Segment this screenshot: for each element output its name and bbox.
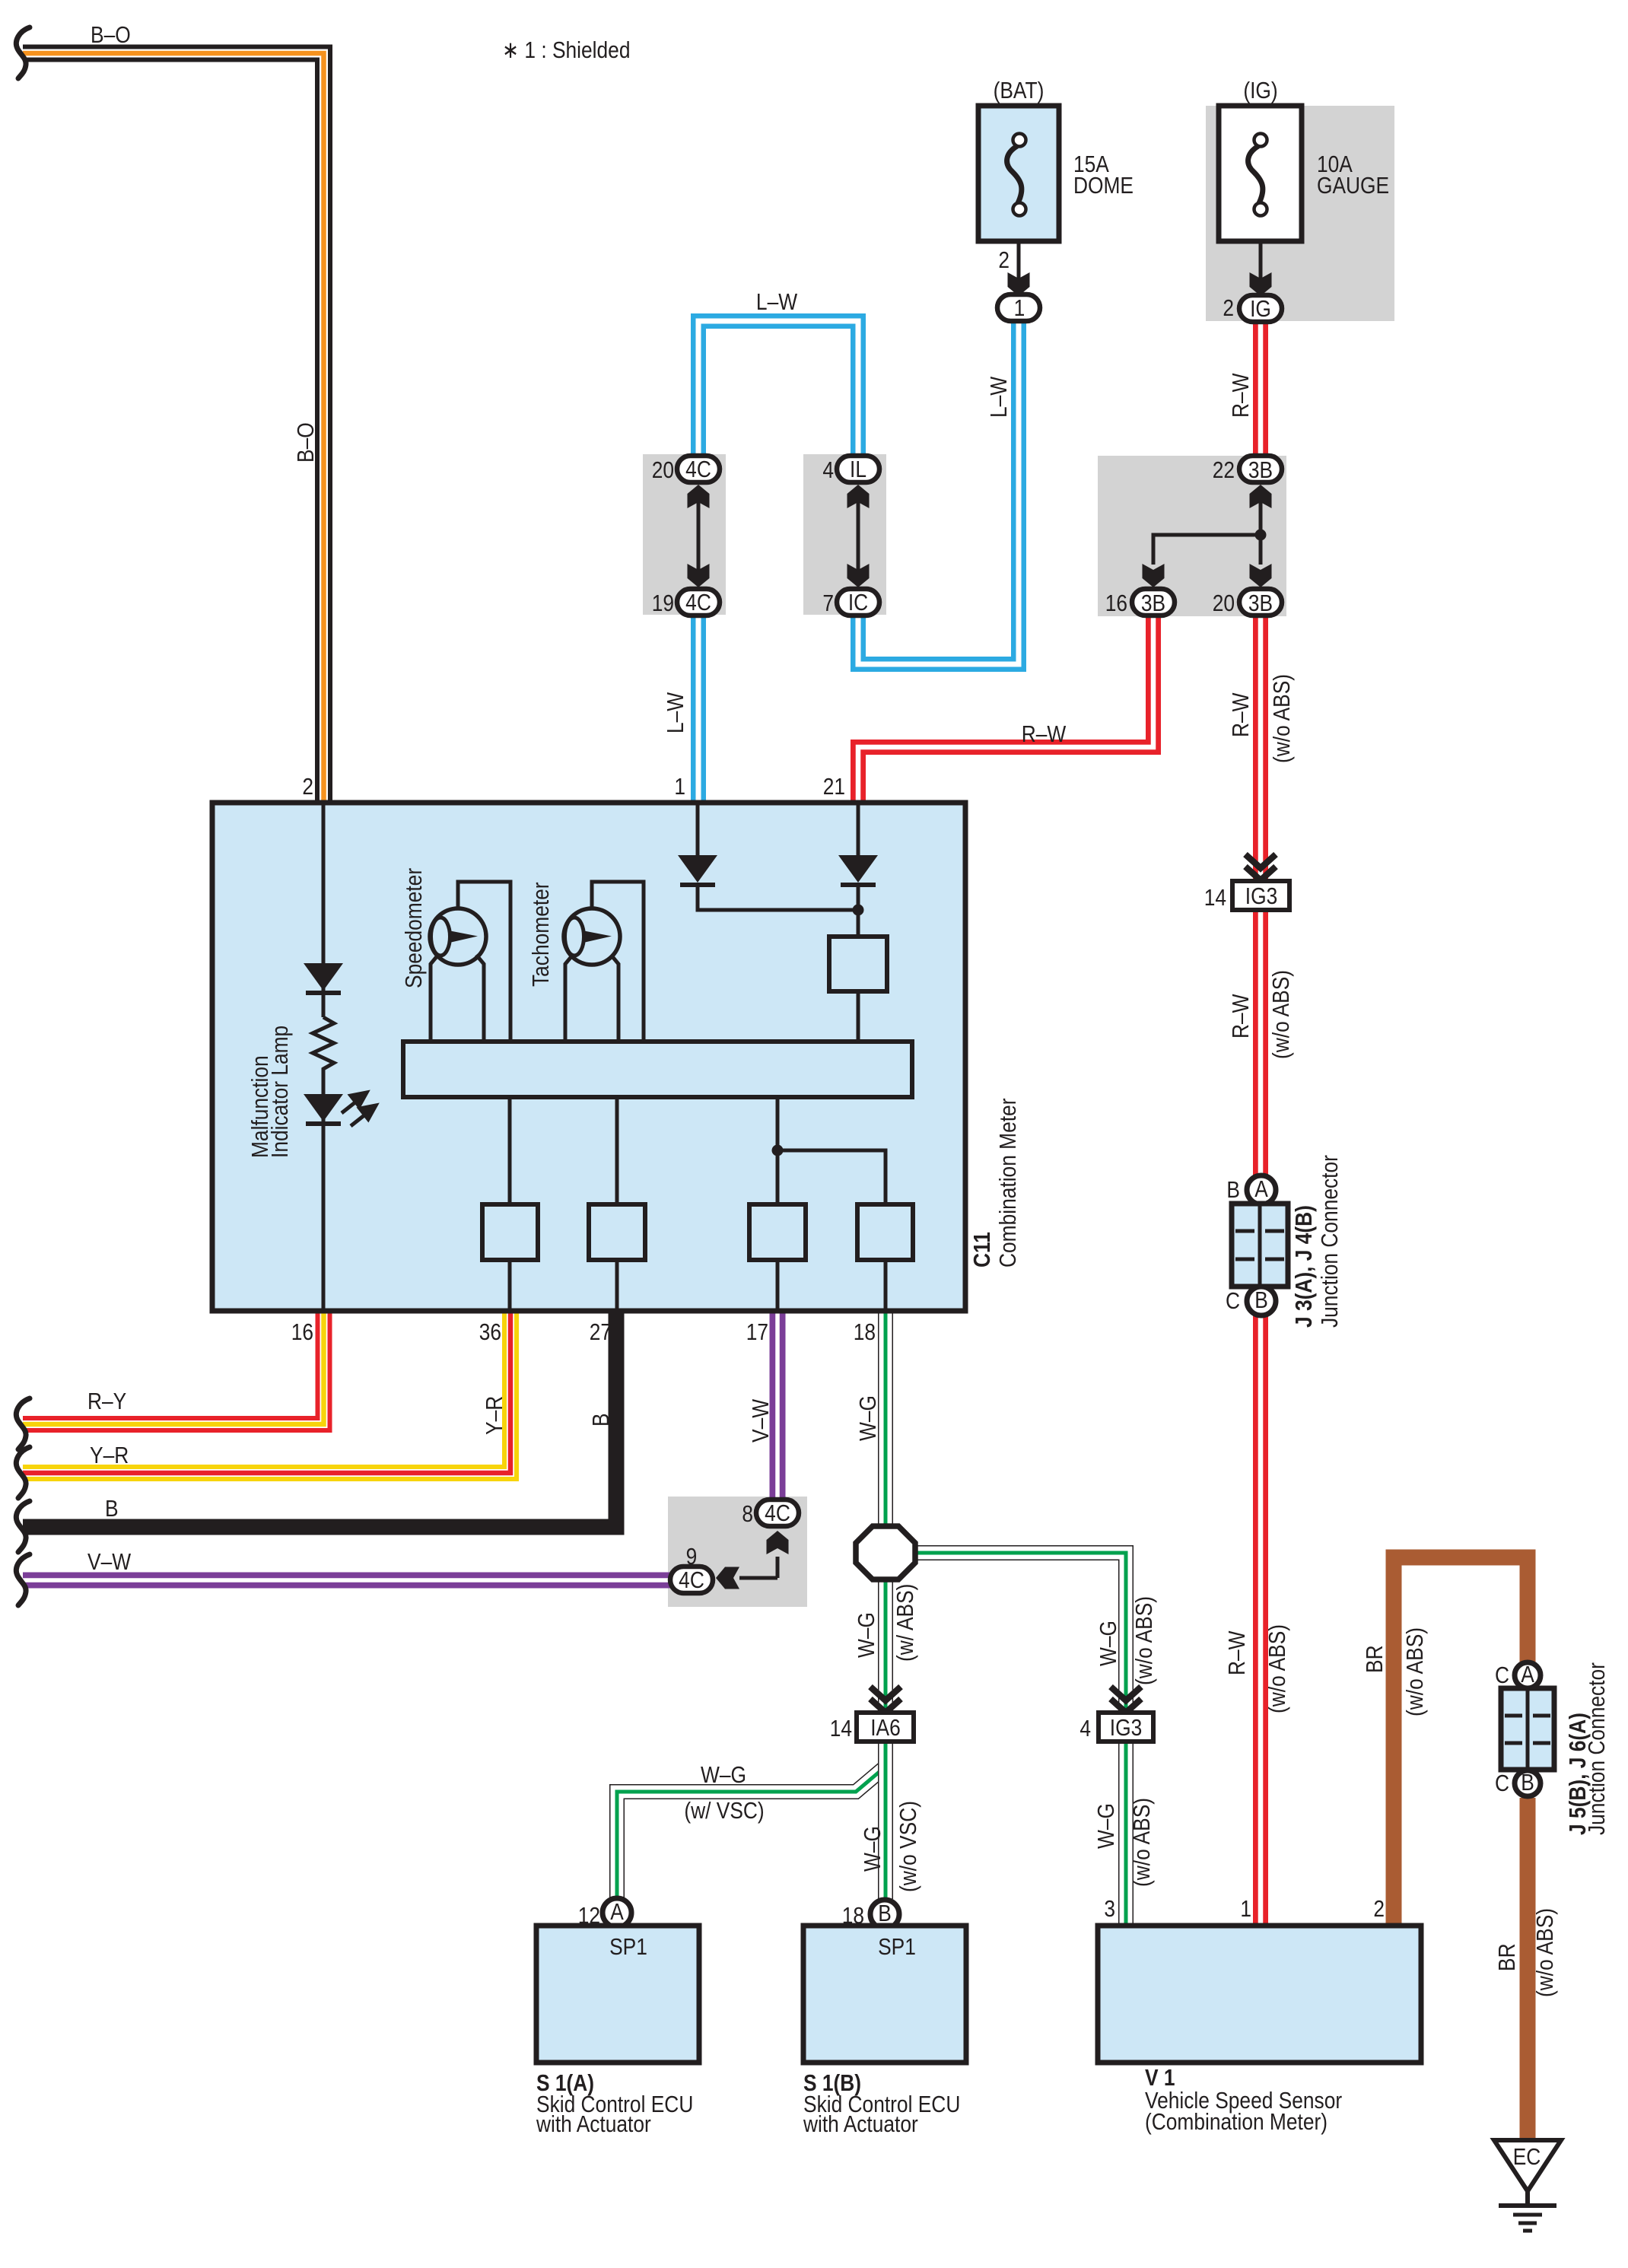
resistor (MIL) <box>313 1017 334 1074</box>
svg-text:18: 18 <box>842 1903 864 1929</box>
wire W-G w/o ABS (IG3 to V1 pin 3) <box>1118 1741 1134 1926</box>
svg-text:14: 14 <box>830 1716 852 1742</box>
wire W-G w/ABS (octagon to IA6) <box>878 1579 893 1713</box>
svg-text:C: C <box>1226 1288 1240 1314</box>
svg-text:C: C <box>1495 1770 1509 1796</box>
connector oval 3B pin 22 <box>1239 456 1282 482</box>
component square output 4 <box>857 1204 913 1260</box>
wire bar to square 3 <box>776 1097 780 1204</box>
svg-text:W–G: W–G <box>1093 1803 1119 1849</box>
wire speedometer legs <box>431 955 438 1042</box>
connector tab IA6 pin 14 <box>857 1713 914 1742</box>
connector 4C 8/9 internal arrows <box>776 1557 780 1578</box>
cut-off curl Y-R wire <box>16 1447 30 1498</box>
svg-text:(w/o ABS): (w/o ABS) <box>1264 1624 1290 1713</box>
connector oval 3B pin 16 <box>1132 589 1175 616</box>
cut-off curl R-Y wire <box>16 1398 30 1449</box>
connector oval 4C pin 9 <box>670 1567 713 1593</box>
svg-text:(w/o ABS): (w/o ABS) <box>1131 1596 1157 1685</box>
junction connector J5(B) J6(A) circle B <box>1515 1770 1541 1796</box>
svg-text:(w/ ABS): (w/ ABS) <box>892 1584 918 1662</box>
component square output 2 <box>589 1204 645 1260</box>
wire branch to square 4 <box>777 1150 886 1204</box>
svg-text:(w/o ABS): (w/o ABS) <box>1129 1798 1155 1887</box>
svg-text:B–O: B–O <box>293 422 319 463</box>
svg-text:BR: BR <box>1494 1943 1520 1971</box>
connector oval 4C pin 8 <box>756 1500 799 1526</box>
svg-text:IG3: IG3 <box>1110 1715 1142 1741</box>
wire BR w/o ABS (junction connector J5 B to EC ground) <box>1520 1798 1536 2141</box>
wire square 4 to pin 18 <box>884 1260 888 1310</box>
diode (pin 21 branch) <box>838 855 878 883</box>
svg-text:L–W: L–W <box>663 692 688 733</box>
svg-text:(w/ VSC): (w/ VSC) <box>684 1798 764 1824</box>
svg-text:C11: C11 <box>969 1232 995 1268</box>
wire Y-R (pin 36) <box>23 1310 510 1473</box>
svg-text:1: 1 <box>1014 295 1025 321</box>
svg-text:B: B <box>105 1496 119 1522</box>
diode (pin 1 branch) <box>678 855 717 883</box>
junction connector J3(A) J4(B) circle B <box>1247 1287 1276 1315</box>
chevron into IA6 (14) <box>870 1687 901 1713</box>
svg-text:(BAT): (BAT) <box>994 78 1045 103</box>
svg-text:1: 1 <box>674 774 685 800</box>
svg-text:A: A <box>1254 1176 1268 1202</box>
S1(B) circle B pin 18 <box>870 1900 899 1929</box>
speedometer gauge <box>430 908 486 965</box>
svg-text:20: 20 <box>1213 590 1235 616</box>
svg-text:SP1: SP1 <box>878 1934 916 1960</box>
wire pin 1 branch <box>696 803 700 855</box>
connector pair 4C 20/19 internal arrow <box>697 491 701 582</box>
svg-text:B: B <box>1521 1770 1534 1796</box>
bus bar <box>403 1042 912 1097</box>
svg-text:7: 7 <box>822 590 834 616</box>
wire square to bus bar <box>857 991 860 1042</box>
svg-text:B: B <box>1254 1287 1268 1313</box>
svg-text:J 3(A), J 4(B): J 3(A), J 4(B) <box>1291 1205 1317 1328</box>
wire MIL branch <box>322 803 326 1017</box>
diode (MIL) <box>304 963 343 991</box>
svg-text:21: 21 <box>823 774 845 800</box>
S1(A) Skid Control ECU box <box>536 1926 699 2063</box>
svg-text:IC: IC <box>848 590 868 616</box>
wire bar to square 1 <box>508 1097 512 1204</box>
wire B (pin 27, ground) <box>23 1310 616 1527</box>
connector tab IG3 pin 4 <box>1099 1713 1153 1742</box>
wire W-G w/VSC (S1(A) pin 12 branch) <box>617 1767 886 1897</box>
svg-text:IG3: IG3 <box>1245 883 1277 909</box>
svg-text:9: 9 <box>686 1544 698 1570</box>
svg-text:Combination Meter: Combination Meter <box>995 1098 1021 1268</box>
svg-text:Y–R: Y–R <box>482 1396 507 1435</box>
svg-text:2: 2 <box>1373 1896 1385 1922</box>
svg-text:20: 20 <box>652 457 674 483</box>
svg-text:R–W: R–W <box>1022 721 1067 747</box>
svg-text:27: 27 <box>590 1319 612 1345</box>
svg-text:8: 8 <box>742 1501 753 1527</box>
wire W-G w/o VSC (IA6 to S1(B) pin 18) <box>878 1741 893 1899</box>
svg-text:W–G: W–G <box>855 1395 881 1441</box>
svg-text:B: B <box>878 1901 892 1926</box>
svg-text:(w/o VSC): (w/o VSC) <box>895 1801 921 1892</box>
junction dot square 3/4 branch <box>772 1145 784 1156</box>
svg-text:3B: 3B <box>1141 590 1165 616</box>
wire W-G (pin 18 to shield octagon) <box>878 1310 893 1526</box>
svg-text:R–W: R–W <box>1224 1630 1250 1675</box>
cut-off curl B wire <box>16 1501 30 1552</box>
connector oval IG <box>1239 295 1282 322</box>
svg-text:3: 3 <box>1104 1896 1115 1922</box>
wire fuse GAUGE to connector IG <box>1259 241 1263 280</box>
wire bar to square 2 <box>615 1097 619 1204</box>
connector oval IL pin 4 <box>837 456 879 482</box>
svg-text:BR: BR <box>1362 1645 1388 1673</box>
V1 Vehicle Speed Sensor box <box>1098 1926 1421 2063</box>
wire pin 21 branch <box>857 803 860 855</box>
cut-off curl B-O wire <box>16 27 30 78</box>
LED (MIL) <box>304 1094 343 1121</box>
svg-text:with Actuator: with Actuator <box>536 2111 651 2137</box>
wire R-Y (pin 16) <box>23 1310 324 1424</box>
wire BR w/o ABS (V1 pin 2 to junction connector J5 A) <box>1394 1557 1528 1926</box>
svg-text:36: 36 <box>479 1319 501 1345</box>
svg-text:16: 16 <box>291 1319 313 1345</box>
svg-text:Indicator Lamp: Indicator Lamp <box>267 1026 293 1158</box>
connector oval IC pin 7 <box>837 589 879 616</box>
svg-text:14: 14 <box>1204 885 1226 911</box>
wire W-G w/o ABS (octagon right branch to IG3) <box>913 1553 1126 1713</box>
tachometer gauge <box>564 908 620 965</box>
wire R-W w/o ABS (IG3 to junction connector J3 A) <box>1253 908 1268 1178</box>
grey panel connector 3B block <box>1098 456 1286 616</box>
wire R-W (GAUGE fuse IG to connector 3B pin 22) <box>1253 320 1268 457</box>
svg-text:L–W: L–W <box>756 289 798 315</box>
junction connector J5(B) J6(A) circle A <box>1515 1662 1541 1688</box>
connector tab IG3 pin 14 <box>1232 881 1289 910</box>
svg-text:(w/o ABS): (w/o ABS) <box>1532 1908 1558 1997</box>
svg-text:∗ 1 : Shielded: ∗ 1 : Shielded <box>502 37 630 63</box>
svg-text:L–W: L–W <box>986 376 1012 418</box>
svg-text:4C: 4C <box>685 590 711 616</box>
grey panel of IG fuse block <box>1206 106 1394 321</box>
svg-text:16: 16 <box>1105 590 1127 616</box>
svg-text:B–O: B–O <box>91 22 131 48</box>
component square output 3 <box>749 1204 806 1260</box>
wire fuse DOME to connector 1 <box>1017 241 1021 280</box>
svg-text:2: 2 <box>998 247 1010 273</box>
svg-text:C: C <box>1495 1662 1509 1688</box>
svg-text:R–W: R–W <box>1228 692 1254 737</box>
svg-text:2: 2 <box>1223 295 1234 321</box>
svg-text:4: 4 <box>1080 1716 1091 1742</box>
svg-text:W–G: W–G <box>1095 1621 1121 1666</box>
wire square 1 to pin 36 <box>508 1260 512 1310</box>
connector oval 1 <box>997 294 1040 321</box>
wire tachometer loop <box>592 882 644 1042</box>
svg-text:IL: IL <box>850 456 866 482</box>
wire square 3 to pin 17 <box>776 1260 780 1310</box>
wire L-W (DOME fuse to connector IC pin 7) <box>858 320 1019 664</box>
svg-text:IA6: IA6 <box>870 1715 901 1741</box>
svg-text:12: 12 <box>578 1903 600 1929</box>
connector oval 4C pin 19 <box>677 589 720 616</box>
junction dot diodes <box>853 905 864 916</box>
svg-text:3B: 3B <box>1248 590 1273 616</box>
svg-text:A: A <box>1521 1662 1534 1687</box>
svg-text:(w/o ABS): (w/o ABS) <box>1402 1627 1428 1716</box>
junction connector J3(A) J4(B) circle A <box>1247 1175 1276 1204</box>
wire L-W (connector 4C pin 19 to meter pin 1) <box>691 618 706 803</box>
grey panel connector 4C 8/9 block <box>668 1497 807 1607</box>
wire R-W (connector 3B pin 16 to meter pin 21) <box>858 618 1153 803</box>
svg-text:4C: 4C <box>679 1567 704 1593</box>
chevron into IG3 (14) <box>1245 854 1276 880</box>
svg-text:W–G: W–G <box>701 1762 746 1788</box>
svg-text:GAUGE: GAUGE <box>1317 173 1389 199</box>
connector 3B internal bus <box>1259 491 1263 535</box>
EC ground <box>1494 2140 1561 2231</box>
component square (regulator) <box>829 937 887 991</box>
wire B-O (battery feed to pin 2) <box>23 53 324 803</box>
svg-text:Junction Connector: Junction Connector <box>1317 1155 1343 1328</box>
svg-text:19: 19 <box>652 590 674 616</box>
svg-text:with Actuator: with Actuator <box>803 2111 918 2137</box>
combination meter C11 box <box>212 803 965 1311</box>
svg-text:R–W: R–W <box>1228 373 1254 418</box>
svg-text:3B: 3B <box>1248 457 1273 483</box>
svg-text:V–W: V–W <box>748 1398 774 1443</box>
wire V-W (connector 4C pin 9 to left edge) <box>23 1573 673 1589</box>
svg-text:R–W: R–W <box>1228 994 1254 1039</box>
svg-text:Junction Connector: Junction Connector <box>1584 1662 1610 1835</box>
svg-text:4C: 4C <box>685 456 711 482</box>
shield octagon <box>856 1526 915 1579</box>
junction connector J5(B) J6(A) cells <box>1501 1688 1554 1770</box>
svg-text:4C: 4C <box>765 1500 790 1526</box>
svg-text:EC: EC <box>1513 2144 1541 2170</box>
S1(A) circle A pin 12 <box>603 1898 631 1927</box>
svg-text:(Combination Meter): (Combination Meter) <box>1145 2109 1328 2135</box>
wire V-W (pin 17 to connector 4C pin 8) <box>770 1310 786 1500</box>
svg-text:4: 4 <box>822 457 834 483</box>
wire R-W w/o ABS (junction connector J3 B to V1 pin 1) <box>1253 1314 1268 1926</box>
svg-text:18: 18 <box>854 1319 876 1345</box>
connector oval 4C pin 20 <box>677 456 720 482</box>
grey panel connector 4C pair <box>643 454 726 615</box>
svg-text:W–G: W–G <box>860 1826 886 1872</box>
wire speedometer loop <box>458 882 510 1042</box>
svg-text:B: B <box>1226 1177 1240 1203</box>
svg-text:(IG): (IG) <box>1243 78 1277 103</box>
svg-text:17: 17 <box>746 1319 768 1345</box>
svg-text:A: A <box>610 1899 624 1925</box>
svg-text:Y–R: Y–R <box>90 1443 129 1468</box>
svg-text:Speedometer: Speedometer <box>401 868 427 988</box>
svg-text:(w/o ABS): (w/o ABS) <box>1269 674 1295 763</box>
svg-text:2: 2 <box>302 774 313 800</box>
junction connector J3(A) J4(B) cells <box>1232 1204 1288 1287</box>
svg-text:DOME: DOME <box>1073 173 1134 199</box>
fuse 15A DOME (BAT) <box>978 106 1059 241</box>
wire square 2 to pin 27 <box>615 1260 619 1310</box>
cut-off curl V-W wire <box>16 1554 30 1605</box>
chevron into IG3 (4) <box>1111 1687 1141 1713</box>
svg-text:22: 22 <box>1213 457 1235 483</box>
svg-text:(w/o ABS): (w/o ABS) <box>1268 970 1294 1059</box>
svg-text:SP1: SP1 <box>609 1934 647 1960</box>
wire tachometer legs <box>565 955 573 1042</box>
fuse 10A GAUGE (IG) <box>1219 106 1302 241</box>
connector pair IL/IC internal arrow <box>857 491 860 582</box>
svg-text:Tachometer: Tachometer <box>528 882 554 987</box>
component square output 1 <box>482 1204 538 1260</box>
grey panel connector IL/IC pair <box>803 454 886 615</box>
svg-text:V–W: V–W <box>87 1549 132 1575</box>
svg-text:IG: IG <box>1250 296 1271 322</box>
connector oval 3B pin 20 <box>1239 589 1282 616</box>
svg-text:B: B <box>588 1413 614 1427</box>
svg-text:W–G: W–G <box>854 1612 879 1658</box>
wire R-W w/o ABS (connector 3B pin 20 down to IG3) <box>1253 618 1268 883</box>
S1(B) Skid Control ECU box <box>803 1926 966 2063</box>
wire L-W (bridge connector 4C pin 20 to IL pin 4) <box>698 321 858 457</box>
svg-text:R–Y: R–Y <box>87 1388 126 1414</box>
svg-text:1: 1 <box>1240 1896 1251 1922</box>
